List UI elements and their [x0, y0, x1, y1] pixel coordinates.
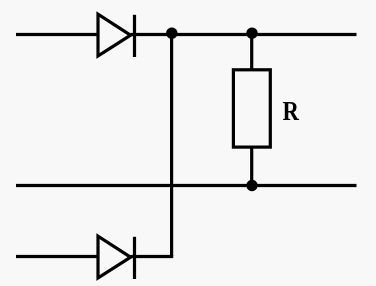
wire: top rail left segment — [16, 33, 98, 36]
wire: bottom diode cathode to vertical link — [131, 255, 174, 258]
node junction dot (top rail / vertical link) — [166, 28, 177, 39]
wire: resistor top lead — [250, 33, 253, 70]
wire: resistor bottom lead — [250, 147, 253, 186]
node junction dot (middle rail / resistor) — [246, 180, 257, 191]
wire: middle rail — [16, 184, 357, 187]
node junction dot (top rail / resistor) — [246, 28, 257, 39]
wire: bottom rail left segment — [16, 255, 98, 258]
wire: top rail right segment — [131, 33, 357, 36]
label R — [283, 97, 300, 126]
diode D1 (top) — [98, 14, 135, 57]
wire: vertical link from top rail to bottom diode — [170, 35, 173, 257]
diode D2 (bottom) — [98, 236, 135, 279]
svg-text:R: R — [283, 97, 300, 126]
resistor R — [233, 70, 270, 147]
